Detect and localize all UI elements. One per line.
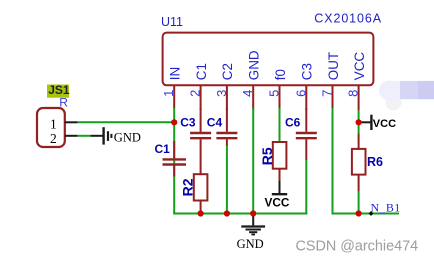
pin 8 VCC xyxy=(346,52,367,111)
junction R6/rail xyxy=(356,210,362,216)
wire C4 down xyxy=(226,146,228,214)
resistor R6 xyxy=(352,133,366,192)
wire R6 down xyxy=(358,192,360,214)
watermark logo blob xyxy=(379,81,434,111)
svg-text:C2: C2 xyxy=(220,63,235,80)
svg-text:4: 4 xyxy=(240,90,255,97)
wire pin5 to R5 xyxy=(279,108,281,142)
wire pin1 column down xyxy=(173,108,175,214)
junction C4/rail xyxy=(224,210,230,216)
junction GND/rail xyxy=(250,210,256,216)
svg-text:C1: C1 xyxy=(155,142,171,156)
svg-text:C3: C3 xyxy=(180,116,196,130)
JS1 pin 1 stub xyxy=(65,121,78,123)
svg-text:CX20106A: CX20106A xyxy=(314,12,382,26)
wire right rail N_B1 xyxy=(332,213,400,215)
svg-text:1: 1 xyxy=(50,117,57,132)
wire pin7 down xyxy=(332,108,334,214)
svg-text:U11: U11 xyxy=(161,15,183,29)
power port GND (left, bar style) xyxy=(90,127,140,144)
pin 1 IN xyxy=(161,67,182,108)
svg-text:CSDN @archie474: CSDN @archie474 xyxy=(296,238,419,254)
IC U11 body xyxy=(163,33,374,86)
junction node A (pin1/JS1) xyxy=(171,119,177,125)
wire left GND rail xyxy=(173,213,307,215)
svg-text:VCC: VCC xyxy=(352,52,367,81)
junction VCC pin8 xyxy=(356,119,362,125)
JS1 designator highlight xyxy=(47,85,69,98)
svg-text:3: 3 xyxy=(214,90,229,97)
svg-text:IN: IN xyxy=(168,67,183,80)
svg-text:N_B1: N_B1 xyxy=(371,200,401,214)
svg-text:R6: R6 xyxy=(367,155,383,169)
svg-text:2: 2 xyxy=(188,90,203,97)
svg-text:2: 2 xyxy=(50,131,57,146)
svg-text:R: R xyxy=(59,96,68,110)
wire pin8 to R6 xyxy=(358,110,360,133)
capacitor C3 column (pin2) xyxy=(190,108,211,174)
capacitor C4 column (pin3) xyxy=(216,108,237,146)
svg-text:6: 6 xyxy=(293,90,308,97)
power port VCC (below R5, bar style) xyxy=(265,180,290,209)
svg-text:VCC: VCC xyxy=(265,196,290,210)
pin 7 OUT xyxy=(320,52,341,108)
power port GND (bottom, earth style) xyxy=(237,214,266,251)
svg-text:f0: f0 xyxy=(273,69,288,80)
capacitor C6 column (pin6) xyxy=(296,108,317,160)
svg-text:C6: C6 xyxy=(285,116,301,130)
pin 4 GND xyxy=(240,50,261,110)
svg-text:OUT: OUT xyxy=(326,52,341,80)
wire C6 down xyxy=(305,160,307,215)
svg-text:GND: GND xyxy=(247,50,262,80)
JS1 pin 2 stub xyxy=(65,135,78,137)
capacitor C1 xyxy=(163,141,187,177)
svg-text:C3: C3 xyxy=(300,63,315,80)
svg-text:1: 1 xyxy=(161,90,176,97)
svg-text:R5: R5 xyxy=(259,147,275,165)
connector JS1 body xyxy=(37,108,65,147)
svg-text:C4: C4 xyxy=(207,116,223,130)
svg-text:VCC: VCC xyxy=(373,118,396,130)
junction R2/rail xyxy=(198,210,204,216)
pin 2 C1 xyxy=(188,63,209,110)
wire JS1.1 to node A xyxy=(78,121,175,123)
svg-text:5: 5 xyxy=(267,90,282,97)
svg-text:R2: R2 xyxy=(180,178,196,196)
svg-text:7: 7 xyxy=(320,90,335,97)
pin 6 C3 xyxy=(293,63,314,110)
svg-text:C1: C1 xyxy=(194,63,209,80)
net label anchor mark xyxy=(369,211,374,216)
resistor R2 xyxy=(194,174,208,213)
pin 5 f0 xyxy=(267,69,288,110)
wire JS1.2 to GND port xyxy=(78,135,91,137)
resistor R5 xyxy=(273,142,287,180)
svg-text:GND: GND xyxy=(237,237,264,251)
power port VCC (right, bar style) xyxy=(359,115,396,130)
pin 3 C2 xyxy=(214,63,235,110)
wire pin4 down xyxy=(252,108,254,214)
svg-text:GND: GND xyxy=(114,130,141,144)
svg-text:8: 8 xyxy=(346,90,361,97)
